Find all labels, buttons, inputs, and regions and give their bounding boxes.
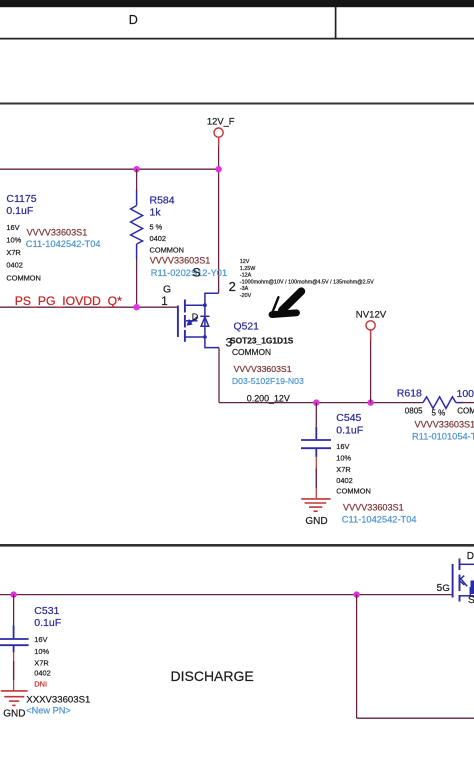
substrate arrowhead Q521 xyxy=(187,319,193,326)
svg-text:XXXV33603S1: XXXV33603S1 xyxy=(26,694,90,705)
capacitor C531 labels xyxy=(26,605,90,716)
svg-text:1k: 1k xyxy=(150,207,162,219)
svg-text:0805: 0805 xyxy=(405,407,423,416)
svg-text:10%: 10% xyxy=(6,236,21,245)
svg-text:G: G xyxy=(163,285,171,296)
svg-text:GND: GND xyxy=(3,708,25,719)
wire 12V_F vertical down to Q521 xyxy=(218,137,220,293)
body diode vertical xyxy=(204,305,206,337)
svg-text:-3A: -3A xyxy=(240,286,249,292)
svg-text:GND: GND xyxy=(305,516,327,527)
svg-text:X7R: X7R xyxy=(6,248,20,257)
svg-text:DISCHARGE: DISCHARGE xyxy=(171,668,254,684)
svg-text:-12A: -12A xyxy=(240,273,252,279)
junction R584 at gate net xyxy=(133,304,139,310)
svg-text:S: S xyxy=(192,266,200,280)
capacitor C545 labels xyxy=(336,412,416,525)
svg-text:Q521: Q521 xyxy=(234,322,260,333)
svg-text:COMMON: COMMON xyxy=(6,273,41,282)
svg-text:<New PN>: <New PN> xyxy=(26,705,70,715)
source stub xyxy=(460,595,474,597)
channel dashes xyxy=(184,300,186,313)
svg-text:COMMON: COMMON xyxy=(457,407,474,416)
svg-text:R11-0101054-T04: R11-0101054-T04 xyxy=(412,431,474,441)
annotation arrow (marker) xyxy=(271,291,301,315)
svg-text:D: D xyxy=(129,13,138,27)
resistor R584 labels xyxy=(150,195,228,279)
svg-text:10%: 10% xyxy=(336,454,351,463)
svg-text:10%: 10% xyxy=(34,647,49,656)
svg-text:16V: 16V xyxy=(336,442,349,451)
sheet frame line xyxy=(0,103,474,105)
svg-text:1.25W: 1.25W xyxy=(240,266,256,272)
svg-text:12V: 12V xyxy=(240,259,250,265)
wire Q521 source down xyxy=(218,348,220,403)
section divider line xyxy=(0,544,474,547)
capacitor C531 xyxy=(13,595,15,638)
bottom lead to pin 3 xyxy=(205,337,219,348)
body diode cathode bar xyxy=(200,315,209,317)
svg-text:C11-1042542-T04: C11-1042542-T04 xyxy=(26,239,101,249)
junction at discharge drop xyxy=(353,591,359,597)
svg-text:C1175: C1175 xyxy=(6,193,36,205)
title block vertical divider xyxy=(335,7,337,39)
svg-text:1000: 1000 xyxy=(457,388,474,400)
ground symbol at C531 xyxy=(1,691,28,706)
wire NV12V vertical xyxy=(370,330,372,402)
svg-text:X7R: X7R xyxy=(336,465,350,474)
junction at R584 top xyxy=(133,166,139,172)
internal junction dot top xyxy=(203,303,207,307)
svg-text:C11-1042542-T04: C11-1042542-T04 xyxy=(342,515,417,525)
svg-text:C545: C545 xyxy=(336,412,361,424)
svg-text:SOT23_1G1D1S: SOT23_1G1D1S xyxy=(230,335,294,345)
svg-text:VVVV33603S1: VVVV33603S1 xyxy=(343,503,404,513)
internal junction dot bottom xyxy=(203,335,207,339)
svg-text:16V: 16V xyxy=(6,223,19,232)
wire R584 bottom lead to gate net xyxy=(136,258,138,307)
junction at 12V_F drop xyxy=(215,166,221,172)
svg-text:5 %: 5 % xyxy=(432,408,446,417)
svg-text:2: 2 xyxy=(229,279,236,294)
svg-text:COMMON: COMMON xyxy=(150,246,185,255)
svg-text:0.1uF: 0.1uF xyxy=(34,617,61,629)
transistor Q521 labels xyxy=(230,322,304,387)
svg-text:X7R: X7R xyxy=(34,658,48,667)
svg-text:VVVV33603S1: VVVV33603S1 xyxy=(27,228,88,238)
resistor R618 xyxy=(423,397,463,409)
svg-text:D: D xyxy=(192,312,199,322)
svg-text:G: G xyxy=(442,583,449,594)
title block top black bar xyxy=(0,0,474,7)
svg-text:5 %: 5 % xyxy=(150,223,163,232)
wire discharge bottom horizontal to edge xyxy=(357,717,474,719)
svg-text:12V_F: 12V_F xyxy=(207,116,235,127)
wire discharge vertical drop xyxy=(356,595,358,719)
gate bar xyxy=(452,564,454,598)
svg-text:VVVV33603S1: VVVV33603S1 xyxy=(415,420,474,430)
wire discharge net horizontal xyxy=(0,594,452,596)
junction at NV12V xyxy=(367,399,373,405)
wire C531 to ground xyxy=(13,652,15,690)
gate bar xyxy=(177,306,179,338)
svg-text:0.1uF: 0.1uF xyxy=(6,205,33,217)
channel dashes xyxy=(459,559,461,571)
svg-text:R584: R584 xyxy=(150,195,175,207)
wire R584 top lead to 12V xyxy=(136,169,138,191)
wire C545 to ground xyxy=(315,457,317,499)
svg-text:1: 1 xyxy=(161,296,167,308)
body vertical xyxy=(469,587,471,596)
svg-text:0402: 0402 xyxy=(6,261,22,270)
svg-text:0402: 0402 xyxy=(336,476,352,485)
drain stub top xyxy=(185,304,205,306)
wire gate net PS_PG_IOVDD_Q* xyxy=(0,306,177,308)
svg-text:16V: 16V xyxy=(34,635,47,644)
drain stub xyxy=(460,563,474,565)
capacitor C545 xyxy=(315,403,317,439)
svg-text:COMMON: COMMON xyxy=(232,347,271,357)
source stub bottom xyxy=(185,336,205,338)
resistor R618 labels xyxy=(397,387,474,441)
ground symbol at C545 xyxy=(301,499,330,511)
svg-text:DNI: DNI xyxy=(34,680,47,689)
body diode (cut at edge) xyxy=(471,581,474,595)
wire 12V horizontal to C1175 xyxy=(0,168,219,170)
svg-text:D03-5102F19-N03: D03-5102F19-N03 xyxy=(232,376,304,386)
svg-text:C531: C531 xyxy=(34,605,59,617)
transistor Q5xx (partial at right edge) xyxy=(453,559,474,602)
body diode triangle xyxy=(201,317,209,326)
svg-text:0402: 0402 xyxy=(34,669,50,678)
body stub with arrow xyxy=(186,320,198,322)
junction at C531 xyxy=(10,591,16,597)
substrate arrow shaft xyxy=(461,579,468,587)
svg-text:S: S xyxy=(468,595,474,606)
wire net 0.200_12V horizontal xyxy=(219,402,423,404)
Q521 spec notes xyxy=(240,259,374,299)
transistor Q521 symbol xyxy=(178,293,219,347)
title block bottom line xyxy=(0,38,474,40)
svg-text:R11-0202S12-Y01: R11-0202S12-Y01 xyxy=(151,268,227,278)
svg-text:NV12V: NV12V xyxy=(356,310,387,321)
capacitor C1175 labels xyxy=(6,193,100,283)
svg-text:VVVV33603S1: VVVV33603S1 xyxy=(234,364,292,374)
junction at C545 xyxy=(313,399,319,405)
wire R618 right lead to edge xyxy=(462,402,474,404)
svg-text:-1000mohm@10V / 100mohm@4.5V /: -1000mohm@10V / 100mohm@4.5V / 135mohm@2… xyxy=(240,279,374,285)
resistor R584 xyxy=(131,190,143,259)
svg-text:0.1uF: 0.1uF xyxy=(336,424,363,436)
svg-text:-20V: -20V xyxy=(240,293,252,299)
svg-text:VVVV33603S1: VVVV33603S1 xyxy=(150,255,211,265)
svg-text:D: D xyxy=(467,551,474,562)
svg-text:R618: R618 xyxy=(397,387,422,399)
power symbol NV12V xyxy=(366,321,375,330)
svg-text:COMMON: COMMON xyxy=(336,487,371,496)
svg-text:0.200_12V: 0.200_12V xyxy=(247,394,290,404)
power symbol 12V_F xyxy=(214,128,223,137)
top lead to pin 2 xyxy=(205,293,219,305)
svg-text:PS_PG_IOVDD_Q*: PS_PG_IOVDD_Q* xyxy=(15,294,122,308)
svg-text:0402: 0402 xyxy=(150,234,166,243)
